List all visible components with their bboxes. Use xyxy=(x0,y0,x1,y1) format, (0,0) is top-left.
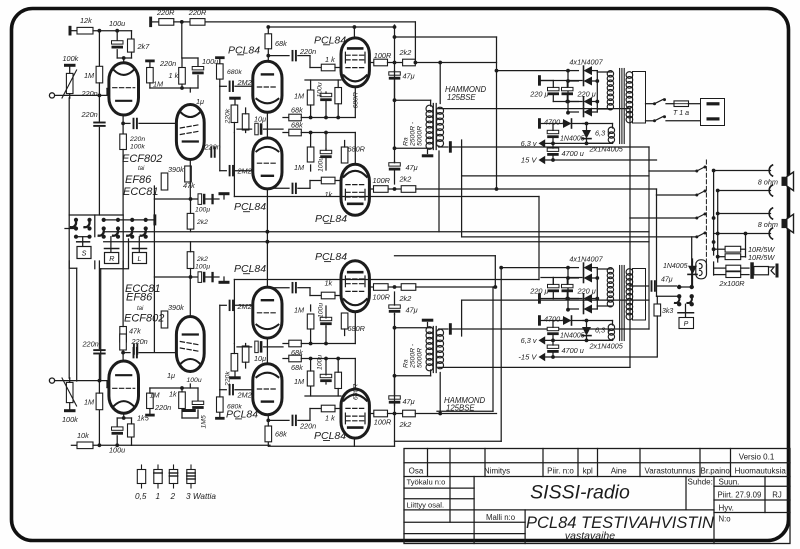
svg-text:4x1N4007: 4x1N4007 xyxy=(569,255,603,264)
svg-text:68k: 68k xyxy=(291,105,303,114)
wire OT secondary top (bottom) xyxy=(438,366,440,369)
svg-text:2x1N4005: 2x1N4005 xyxy=(589,145,624,154)
svg-text:PCL84 TESTIVAHVISTIN: PCL84 TESTIVAHVISTIN xyxy=(526,514,714,532)
svg-text:390k: 390k xyxy=(168,303,184,312)
svg-text:EF86: EF86 xyxy=(125,174,152,186)
tube V3 output pentode A (top) xyxy=(341,38,369,87)
svg-text:12k: 12k xyxy=(80,16,92,25)
switch contact spk2 xyxy=(697,191,706,196)
power transformer (top) xyxy=(619,69,621,144)
wire input to grid (top) xyxy=(69,94,107,96)
svg-text:1 k: 1 k xyxy=(169,71,179,80)
wire V1b cathode to bus (bottom) xyxy=(189,277,191,317)
svg-text:68k: 68k xyxy=(291,363,303,372)
svg-text:Versio 0.1: Versio 0.1 xyxy=(739,453,775,462)
resistor 12k (top) xyxy=(69,26,72,36)
lamp R xyxy=(110,237,112,248)
wire arc4 xyxy=(714,233,771,235)
input jack (bottom) xyxy=(49,378,54,383)
svg-text:100u: 100u xyxy=(109,19,125,28)
svg-text:680R: 680R xyxy=(348,324,366,333)
svg-text:1M: 1M xyxy=(294,377,305,386)
wire B+ rail splitter (bottom) xyxy=(269,445,395,447)
wire arc2 xyxy=(718,190,771,192)
svg-text:3 Wattia: 3 Wattia xyxy=(186,492,216,501)
resistor 1M out A (bottom) xyxy=(310,386,312,396)
resistor 1M splitter (top) xyxy=(242,114,249,130)
capacitor 47u out A (bottom) xyxy=(389,396,401,399)
capacitor 100u (input) (top) xyxy=(116,31,118,41)
svg-text:kpl: kpl xyxy=(583,466,593,475)
resistor 220k (bottom) xyxy=(231,354,238,372)
wire B+ to PSU b (bottom) xyxy=(501,267,568,269)
svg-text:1 k: 1 k xyxy=(325,413,335,422)
svg-text:100u: 100u xyxy=(318,157,325,172)
wire OT secondary bottom (top) xyxy=(438,146,440,147)
wire interchannel ground xyxy=(153,186,155,352)
wire 220k column link (top) xyxy=(233,133,235,197)
capacitor 220n input line (bottom) xyxy=(98,355,100,381)
resistor 1M out B (bottom) xyxy=(310,305,312,311)
svg-text:220n: 220n xyxy=(159,59,176,68)
wire V3 top riser (bottom) xyxy=(353,438,355,447)
wire B+ vertical main (top) xyxy=(496,37,498,189)
svg-text:1M: 1M xyxy=(84,397,95,406)
svg-text:1M5: 1M5 xyxy=(201,415,208,428)
resistor 1k (top) xyxy=(181,58,183,68)
diode D4 1N4007 (bottom) xyxy=(584,305,593,314)
svg-text:1μ: 1μ xyxy=(167,371,175,380)
resistor 680R out A (top) xyxy=(335,88,342,104)
link riser x539 xyxy=(538,197,540,280)
svg-text:4700 u: 4700 u xyxy=(544,314,566,323)
wire long right rail xyxy=(648,171,650,329)
svg-text:1M: 1M xyxy=(294,92,305,101)
svg-text:6,3 v: 6,3 v xyxy=(595,326,611,335)
resistor 1k grid B (top) xyxy=(321,177,335,184)
capacitor 220n cathode (top) xyxy=(123,122,130,124)
potentiometer 100k (bottom) xyxy=(64,409,76,412)
capacitor 100u bus top xyxy=(154,198,197,200)
svg-text:1M: 1M xyxy=(84,71,95,80)
svg-text:220 μ: 220 μ xyxy=(577,286,596,295)
capacitor 220u B (bottom) xyxy=(562,284,574,287)
wire out B cathode (top) xyxy=(309,131,313,135)
tube V1b second triode (bottom) xyxy=(176,317,204,372)
svg-text:1M: 1M xyxy=(294,163,305,172)
svg-text:220n: 220n xyxy=(82,339,99,348)
capacitor 100u out A (bottom) xyxy=(320,374,332,377)
svg-text:100R: 100R xyxy=(373,293,391,302)
link wire upper xyxy=(234,196,539,198)
tube V2b phase splitter (top) xyxy=(253,138,282,189)
svg-text:220n: 220n xyxy=(154,403,171,412)
wire OT primary bottom (bottom) xyxy=(395,327,431,329)
wire OT primary top (top) xyxy=(430,100,432,106)
resistor 1M out B (top) xyxy=(310,165,312,171)
resistor 2k2 out B (top) xyxy=(401,186,416,193)
capacitor 220u A (bottom) xyxy=(548,284,560,287)
svg-text:47k: 47k xyxy=(183,181,195,190)
tube V2b phase splitter (bottom) xyxy=(253,287,282,338)
capacitor 1u (bottom) xyxy=(185,362,196,364)
svg-text:2x100R: 2x100R xyxy=(718,279,745,288)
svg-text:100u: 100u xyxy=(317,355,324,370)
resistor 680R out B (top) xyxy=(341,147,348,163)
lamp P xyxy=(685,304,687,311)
resistor 3k3 xyxy=(656,296,658,304)
wire PSU left rail (top) xyxy=(567,71,569,113)
connector arc 4 xyxy=(769,228,772,239)
capacitor 2M2 lower (bottom) xyxy=(220,304,227,306)
diode D3 1N4007 (top) xyxy=(584,97,593,106)
svg-text:4700 u: 4700 u xyxy=(562,346,584,355)
svg-text:680R: 680R xyxy=(353,92,360,108)
svg-text:220k: 220k xyxy=(225,108,232,124)
svg-text:ECF802: ECF802 xyxy=(124,313,164,325)
svg-text:5000R: 5000R xyxy=(417,348,424,368)
resistor 68k ladder B (bottom) xyxy=(283,343,289,345)
svg-text:125BSE: 125BSE xyxy=(447,93,476,102)
resistor 100k cathode (bottom) xyxy=(120,327,127,343)
svg-text:2k2: 2k2 xyxy=(399,175,412,184)
resistor 2k7 (bottom) xyxy=(131,437,133,445)
svg-text:2500R -: 2500R - xyxy=(410,343,417,369)
resistor 390k (top) xyxy=(161,173,168,190)
resistor 1M (V1b) (top) xyxy=(147,68,154,83)
riser x439 top xyxy=(438,151,440,232)
svg-text:10μ: 10μ xyxy=(254,115,266,124)
ground heater (bottom) xyxy=(538,315,541,326)
svg-text:100R: 100R xyxy=(374,418,392,427)
wire 680k to lower (bottom) xyxy=(219,305,221,389)
wire secondary line (top) xyxy=(461,140,463,176)
svg-text:R: R xyxy=(109,254,114,263)
diode 1N4005 h (top) xyxy=(553,123,562,125)
heater winding wires (top) xyxy=(612,124,614,129)
svg-text:2500R -: 2500R - xyxy=(410,121,417,147)
svg-text:1 k: 1 k xyxy=(325,55,335,64)
svg-text:PCL84: PCL84 xyxy=(234,263,266,275)
power switch contacts xyxy=(677,294,681,298)
svg-text:100R: 100R xyxy=(373,176,391,185)
svg-text:10μ: 10μ xyxy=(254,354,266,363)
svg-text:PCL84: PCL84 xyxy=(228,44,260,56)
svg-text:8 ohm: 8 ohm xyxy=(758,178,778,187)
resistor 2k2 bus top xyxy=(187,213,194,229)
svg-text:N:o: N:o xyxy=(719,515,732,524)
capacitor 100u (input) (bottom) xyxy=(116,436,118,446)
wire V4 plate (top) xyxy=(369,188,373,190)
svg-text:47μ: 47μ xyxy=(403,397,415,406)
svg-text:220n: 220n xyxy=(299,47,316,56)
resistor 68k anode (bottom) xyxy=(267,442,269,447)
svg-text:220n: 220n xyxy=(81,110,98,119)
wire bottom rail link xyxy=(132,444,271,446)
svg-text:220 μ: 220 μ xyxy=(577,89,596,98)
wire arc3 xyxy=(718,213,771,215)
tube V2a phase splitter (bottom) xyxy=(253,364,282,415)
svg-text:2k2: 2k2 xyxy=(399,420,412,429)
ground bar splitter (bottom) xyxy=(229,376,241,379)
wire PSU diode column (bottom) xyxy=(568,267,578,269)
resistor 68k ladder A (bottom) xyxy=(283,358,289,360)
capacitor 47u out A (top) xyxy=(389,72,401,75)
tube V2a phase splitter (top) xyxy=(253,61,282,112)
wire feed spk3 xyxy=(629,109,631,218)
resistor 47k (top) xyxy=(185,166,192,182)
svg-text:1k: 1k xyxy=(325,190,333,199)
svg-text:2M2: 2M2 xyxy=(237,167,252,176)
wire spk column A xyxy=(713,171,715,256)
svg-text:Piir. n:o: Piir. n:o xyxy=(547,466,574,475)
svg-text:ECC81: ECC81 xyxy=(123,186,158,198)
svg-text:ECF802: ECF802 xyxy=(122,153,162,165)
tube V3 output pentode A (bottom) xyxy=(341,389,369,438)
svg-text:4700 u: 4700 u xyxy=(544,117,566,126)
diode D1 1N4007 (bottom) xyxy=(584,263,593,272)
resistor 100R out A (top) xyxy=(374,59,388,66)
selector outputs down xyxy=(76,268,78,381)
capacitor 100u out B (top) xyxy=(320,150,332,153)
resistor 1k grid A (bottom) xyxy=(321,405,335,412)
svg-text:Ra: Ra xyxy=(403,359,410,368)
svg-text:680R: 680R xyxy=(353,384,360,400)
svg-text:68k: 68k xyxy=(275,429,287,438)
svg-text:1N4005: 1N4005 xyxy=(560,333,585,340)
svg-text:Br.paino: Br.paino xyxy=(701,466,731,475)
wire V3 top riser (top) xyxy=(353,27,355,38)
svg-text:68k: 68k xyxy=(275,39,287,48)
connector arc 1 xyxy=(769,165,772,176)
svg-text:47μ: 47μ xyxy=(661,277,673,284)
selector gangs R and L xyxy=(104,219,155,221)
svg-text:RJ: RJ xyxy=(772,490,782,499)
svg-text:Hyv.: Hyv. xyxy=(719,503,734,512)
svg-text:680k: 680k xyxy=(227,69,242,76)
svg-text:2x1N4005: 2x1N4005 xyxy=(589,342,624,351)
resistor 680k (top) xyxy=(215,56,225,59)
headphone jack xyxy=(750,262,754,279)
resistor 100R out B (top) xyxy=(374,186,389,193)
svg-text:2k7: 2k7 xyxy=(137,42,151,51)
svg-text:100μ: 100μ xyxy=(195,263,210,270)
svg-text:10R/5W: 10R/5W xyxy=(748,253,775,262)
resistor 47k (bottom) xyxy=(120,334,127,350)
svg-text:68k: 68k xyxy=(291,120,303,129)
svg-text:0,5: 0,5 xyxy=(135,492,147,501)
svg-text:1M: 1M xyxy=(294,305,305,314)
capacitor 220u A (top) xyxy=(548,87,560,90)
arrow 6,3v (top) xyxy=(539,139,546,147)
ground OT (top) xyxy=(422,154,434,157)
heater winding wires (bottom) xyxy=(612,321,614,326)
svg-text:Nimitys: Nimitys xyxy=(484,466,510,475)
wire PSU right rail (top) xyxy=(592,70,597,72)
wire anode node (top) xyxy=(117,57,131,59)
lamp L xyxy=(138,237,140,248)
resistor 1M (grid) (top) xyxy=(98,31,100,67)
svg-text:4700 u: 4700 u xyxy=(562,149,584,158)
svg-text:PCL84: PCL84 xyxy=(315,251,347,263)
resistor 68k ladder B (top) xyxy=(283,132,289,134)
svg-text:tai: tai xyxy=(137,306,144,312)
wire heater right (bottom) xyxy=(587,339,613,341)
svg-text:47μ: 47μ xyxy=(403,72,415,81)
wire V1b top (bottom) xyxy=(150,387,198,389)
wire feed spk2 xyxy=(657,194,696,196)
wire 15V line (top) xyxy=(545,159,657,161)
wattage legend xyxy=(141,465,143,470)
diode 1N4005 v (top) xyxy=(586,124,588,130)
switch contact spk4 xyxy=(697,232,706,237)
svg-text:PCL84: PCL84 xyxy=(226,408,258,420)
svg-text:68k: 68k xyxy=(291,348,303,357)
resistor 390k (bottom) xyxy=(161,311,168,328)
svg-text:PCL84: PCL84 xyxy=(315,213,347,225)
svg-text:PCL84: PCL84 xyxy=(234,201,266,213)
lamp S xyxy=(82,237,84,241)
svg-text:15 V: 15 V xyxy=(521,156,538,165)
svg-text:tai: tai xyxy=(138,166,145,172)
wire B+ riser (top) xyxy=(394,25,396,162)
wire splitter chain interlink xyxy=(266,189,268,287)
ground PSU caps (top) xyxy=(538,75,541,86)
svg-text:Malli n:o: Malli n:o xyxy=(486,513,516,522)
resistor 1k grid B (bottom) xyxy=(321,292,335,299)
svg-text:1: 1 xyxy=(156,492,161,501)
svg-text:100k: 100k xyxy=(63,54,79,63)
ground PSU caps (bottom) xyxy=(538,293,541,304)
power transformer (bottom) xyxy=(619,266,621,341)
resistor 1M splitter (bottom) xyxy=(242,346,249,362)
connector arc 3 xyxy=(769,208,772,219)
pilot assembly xyxy=(696,260,707,279)
wire secondary line b (bottom) xyxy=(461,300,463,336)
wire mains bottom xyxy=(646,120,654,122)
tube V1a input triode (bottom) xyxy=(109,361,139,413)
svg-text:Työkalu n:o: Työkalu n:o xyxy=(407,478,446,487)
svg-text:Osa: Osa xyxy=(409,466,424,475)
svg-text:220n: 220n xyxy=(81,89,98,98)
svg-text:PCL84: PCL84 xyxy=(314,430,346,442)
wire load join xyxy=(745,234,747,258)
wire PSU right rail (bottom) xyxy=(592,267,597,269)
arrow 15V (bottom) xyxy=(539,353,546,361)
capacitor 4700u B (bottom) xyxy=(547,345,559,348)
wire cathode V1a (top) xyxy=(122,115,124,134)
svg-text:390k: 390k xyxy=(168,165,184,174)
wire feed spk1 xyxy=(648,147,650,171)
wire pot to selector (top) xyxy=(68,98,70,215)
wire mains top xyxy=(646,103,654,105)
terminal bar (top) xyxy=(145,60,155,63)
resistor 680R out B (bottom) xyxy=(341,313,348,329)
svg-text:220R: 220R xyxy=(156,8,175,17)
ground bar input b xyxy=(182,409,196,412)
capacitor 4700u B (top) xyxy=(547,148,559,151)
svg-text:1M: 1M xyxy=(150,391,161,400)
speaker 1 xyxy=(782,177,787,186)
wire V3 plate (bottom) xyxy=(369,413,373,415)
svg-text:PCL84: PCL84 xyxy=(314,34,346,46)
wire anode node (bottom) xyxy=(117,417,131,419)
resistor 2k2 bus bottom xyxy=(187,252,194,269)
resistor 10R/5W b xyxy=(718,256,725,258)
svg-text:Suun.: Suun. xyxy=(719,477,740,486)
capacitor 100u out A (top) xyxy=(320,93,332,96)
wire splitter cathode chain (top) xyxy=(266,113,268,139)
svg-text:-15 V: -15 V xyxy=(518,353,537,362)
resistor 680k (bottom) xyxy=(215,417,225,420)
terminal bar 220R xyxy=(149,17,152,28)
resistor 1M (V1b) (bottom) xyxy=(147,393,154,408)
mains plug xyxy=(701,99,725,126)
wire PSU left rail (bottom) xyxy=(567,268,569,310)
ground OT (bottom) xyxy=(422,319,434,322)
svg-text:6,3 v: 6,3 v xyxy=(595,129,611,138)
wire splitter cathode chain (bottom) xyxy=(266,338,268,364)
wire plate feed riser (bottom) xyxy=(439,373,441,414)
output transformer HAMMOND 125BSE (top) xyxy=(432,104,434,150)
wire cathode V1a (bottom) xyxy=(122,342,124,361)
svg-text:1M: 1M xyxy=(153,80,164,89)
svg-text:Huomautuksia: Huomautuksia xyxy=(735,466,787,475)
capacitor 47u out B (bottom) xyxy=(389,305,401,308)
input jack (top) xyxy=(49,93,54,98)
resistor 2k2 out A (bottom) xyxy=(403,410,416,417)
wire B+ to PSU (top) xyxy=(497,70,569,72)
title block xyxy=(404,449,790,544)
bus wire upper xyxy=(104,231,649,233)
wire 680k to lower (top) xyxy=(219,86,221,170)
svg-text:2M2: 2M2 xyxy=(237,390,252,399)
svg-text:220 μ: 220 μ xyxy=(529,89,548,98)
resistor 220R a xyxy=(152,21,159,23)
selector dashed line xyxy=(705,160,707,271)
svg-text:220n: 220n xyxy=(129,136,145,143)
wire V4 plate (bottom) xyxy=(369,286,373,288)
wire plate feed riser (top) xyxy=(439,63,441,104)
capacitor 2M2 lower (top) xyxy=(220,170,227,172)
tube V4 output pentode B (bottom) xyxy=(341,261,369,312)
wire V1b cathode to bus (top) xyxy=(189,160,191,200)
capacitor 2M2 upper (top) xyxy=(220,85,227,87)
svg-text:47k: 47k xyxy=(129,327,141,336)
switch contact spk3 xyxy=(697,214,706,219)
svg-text:100u: 100u xyxy=(202,57,218,66)
svg-text:EF86: EF86 xyxy=(126,292,153,304)
svg-text:S: S xyxy=(82,249,87,258)
coupling 220n to output A (top) xyxy=(268,55,289,57)
svg-text:220 μ: 220 μ xyxy=(529,286,548,295)
svg-text:Liittyy osal.: Liittyy osal. xyxy=(407,501,445,510)
capacitor 220n cathode (bottom) xyxy=(123,352,130,354)
wire B+ vertical main (bottom) xyxy=(492,287,494,411)
svg-text:100u: 100u xyxy=(109,446,125,455)
svg-text:220n: 220n xyxy=(204,143,221,152)
capacitor 4700u A (top) xyxy=(547,130,559,133)
capacitor 220n coupl2 (bottom) xyxy=(133,344,135,354)
svg-text:2k2: 2k2 xyxy=(399,294,412,303)
capacitor 4700u A (bottom) xyxy=(547,327,559,330)
wire corner bottom B+ xyxy=(395,255,496,257)
capacitor 220u B (top) xyxy=(562,87,574,90)
svg-text:100u: 100u xyxy=(187,377,202,384)
svg-text:6,3 v: 6,3 v xyxy=(521,336,537,345)
svg-text:T 1 a: T 1 a xyxy=(673,110,689,117)
wire OT secondary top (top) xyxy=(438,107,440,110)
